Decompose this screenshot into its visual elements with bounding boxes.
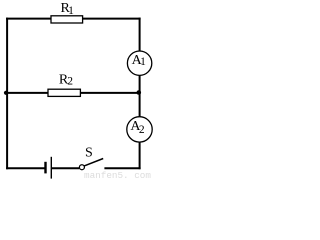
wire: middle rail left segment (6, 92, 48, 94)
resistor R1 (51, 16, 83, 23)
label R2 (59, 72, 73, 87)
wire: right vertical, A2 down to bottom rail (139, 142, 141, 169)
wire: middle rail right segment (80, 92, 140, 94)
svg-text:S: S (85, 146, 93, 161)
ammeter A1 (127, 51, 151, 75)
label R1 (61, 1, 75, 17)
wire: bottom rail, left corner to battery (6, 167, 44, 169)
wire: right vertical, A1 to junction and down to A2 (139, 75, 141, 117)
watermark manfen5.com (84, 170, 151, 181)
resistor R2 (48, 89, 80, 96)
svg-text:manfen5. com: manfen5. com (84, 170, 151, 179)
wire: top rail right segment (83, 18, 141, 20)
svg-text:1: 1 (140, 56, 146, 68)
wire: switch to bottom-right corner (104, 167, 140, 169)
battery (cell): long thin positive plate (51, 157, 52, 179)
ammeter A2 (127, 117, 152, 142)
wire: top rail left segment (6, 18, 51, 20)
wire: left vertical rail (6, 18, 8, 170)
svg-text:2: 2 (67, 76, 73, 88)
switch S: pivot circle (79, 165, 84, 170)
wire: battery to switch (51, 167, 79, 169)
wire: right vertical, top corner to A1 (139, 18, 141, 51)
label S (85, 146, 93, 161)
battery (cell): short thick negative plate (44, 162, 46, 174)
node: junction dot right (middle rail meets right rail) (137, 90, 142, 95)
switch S: lever arm (84, 159, 103, 166)
node: junction dot left (middle rail meets left rail) (4, 91, 8, 95)
svg-text:1: 1 (68, 5, 74, 17)
svg-text:2: 2 (139, 124, 145, 136)
